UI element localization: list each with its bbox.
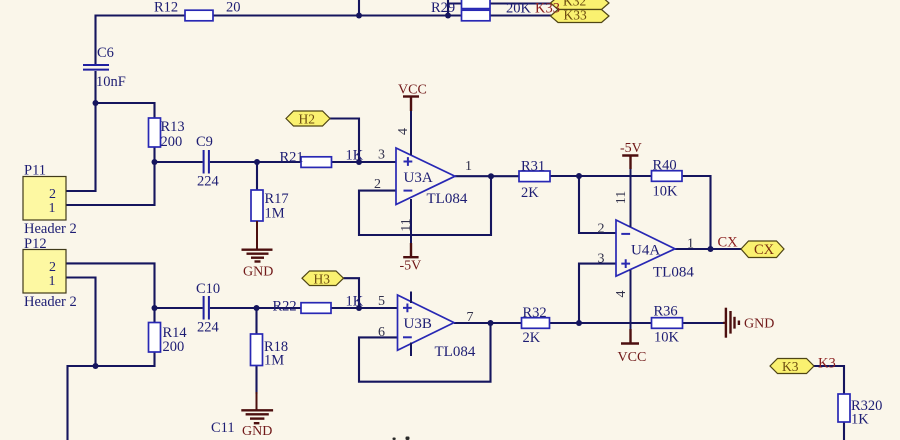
wire top-left L from R12 to C6: [96, 16, 186, 65]
port H3: [302, 271, 344, 286]
svg-text:R40: R40: [653, 158, 677, 174]
wire R13 bottom to C9 and down to P11 pin1: [66, 147, 203, 205]
header P11: [23, 177, 66, 221]
wire R21 right to U3A pin3: [332, 161, 397, 163]
svg-text:10K: 10K: [653, 184, 679, 200]
svg-text:TL084: TL084: [427, 191, 468, 207]
svg-text:GND: GND: [744, 317, 774, 332]
wire R31 right to R40 left: [550, 175, 652, 177]
capacitor C6: [83, 65, 109, 70]
svg-text:P11: P11: [24, 163, 46, 179]
svg-text:1: 1: [49, 274, 56, 289]
wire vertical up at x448 with branch to R30: [448, 0, 462, 16]
svg-text:U3A: U3A: [404, 170, 433, 186]
wire R29 lower to port K33: [490, 14, 551, 16]
wire U3B pin6 feedback loop: [359, 323, 491, 382]
svg-text:U4A: U4A: [631, 243, 660, 259]
junction C6/R13: [93, 100, 99, 106]
wire R40 right corner down to output: [682, 176, 711, 249]
svg-text:2: 2: [49, 260, 56, 275]
svg-text:4: 4: [396, 128, 411, 135]
svg-text:200: 200: [163, 339, 185, 355]
wire R32 to R36 row: [550, 322, 652, 324]
power -5V above U4A: [622, 156, 638, 170]
svg-text:2: 2: [598, 222, 605, 237]
svg-text:C9: C9: [196, 134, 213, 150]
power -5V below U3A: [403, 243, 418, 257]
junction R13/C9/P11: [152, 159, 158, 165]
wire C9 right to R21: [210, 161, 301, 163]
ground GND below R17: [242, 221, 273, 262]
svg-text:R29: R29: [431, 0, 455, 16]
svg-text:Header 2: Header 2: [24, 294, 77, 310]
wire U4A pin3 from junction below: [579, 264, 616, 323]
svg-text:CX: CX: [754, 242, 775, 258]
wire C10 right to R22: [210, 307, 301, 309]
wire H3 right and down to pin5 net: [344, 278, 360, 308]
junction H2: [356, 159, 362, 165]
junction bottom-left: [93, 363, 99, 369]
resistor R12: [185, 10, 213, 21]
svg-text:H2: H2: [299, 112, 316, 127]
resistor R17: [251, 190, 263, 221]
wire R14 through junction: [68, 308, 155, 440]
capacitor C9: [204, 150, 209, 174]
port K3: [770, 359, 814, 374]
resistor R30 (partial, top edge): [462, 0, 491, 9]
wire R320 bottom to edge: [843, 422, 845, 440]
svg-text:1K: 1K: [346, 294, 364, 310]
svg-text:224: 224: [197, 320, 220, 336]
svg-text:10nF: 10nF: [96, 74, 126, 90]
port H2: [286, 111, 330, 126]
wire K3 port to R320: [814, 366, 844, 394]
svg-text:R13: R13: [161, 119, 185, 135]
junction top x448: [445, 13, 451, 19]
svg-text:R21: R21: [280, 150, 304, 166]
svg-text:1M: 1M: [265, 206, 285, 222]
junction U3A output: [488, 173, 494, 179]
wire R17 branch down: [256, 162, 258, 190]
junction R18: [254, 305, 260, 311]
junction R31/R40/pin2: [576, 173, 582, 179]
svg-text:2: 2: [374, 177, 381, 192]
resistor R40: [652, 171, 683, 182]
svg-text:U3B: U3B: [404, 316, 432, 332]
junction R40/CX output: [708, 246, 714, 252]
svg-text:1K: 1K: [851, 412, 869, 428]
op-amp U4A: [616, 168, 675, 330]
svg-text:7: 7: [467, 310, 474, 325]
svg-text:C11: C11: [211, 420, 235, 436]
svg-text:11: 11: [399, 218, 414, 231]
svg-text:11: 11: [614, 191, 629, 204]
svg-text:C10: C10: [196, 281, 220, 297]
wire junction to R13 top: [96, 103, 155, 118]
resistor R32: [522, 318, 550, 329]
wire junction down to U4A pin2: [579, 176, 616, 233]
ground GND below R18: [241, 392, 273, 423]
svg-text:1K: 1K: [346, 148, 364, 164]
wire vertical up at x359: [358, 0, 360, 16]
wire U3B out to R32: [454, 322, 522, 324]
svg-text:20K: 20K: [506, 1, 532, 17]
svg-text:K3: K3: [782, 359, 799, 374]
svg-text:1: 1: [687, 237, 694, 252]
svg-text:GND: GND: [242, 424, 272, 439]
wire C6 bottom to junction to P11 pin2: [66, 71, 96, 191]
wire R30 upper to port K32: [490, 2, 551, 4]
svg-text:5: 5: [378, 294, 385, 309]
power VCC below U4A: [621, 329, 639, 344]
wire R22 right to U3B pin5: [331, 307, 398, 309]
resistor R36: [652, 318, 683, 329]
wire U4A output to CX port: [675, 248, 741, 250]
svg-text:Header 2: Header 2: [24, 221, 77, 237]
svg-text:2K: 2K: [523, 330, 541, 346]
svg-text:6: 6: [378, 325, 385, 340]
wire P12 pin2 to C10 left: [66, 263, 203, 308]
resistor R29: [462, 10, 491, 21]
junction top x359: [356, 13, 362, 19]
junction R17: [254, 159, 260, 165]
header P12: [23, 250, 66, 294]
svg-text:R31: R31: [521, 159, 545, 175]
op-amp U3B: [398, 292, 455, 357]
wire P12 pin1 down to bottom junction: [66, 278, 96, 367]
svg-text:K3: K3: [818, 356, 836, 372]
power VCC above U3A: [403, 97, 419, 112]
wire R18 branch down: [255, 308, 257, 394]
junction R32/R36/pin3: [576, 320, 582, 326]
svg-text:2: 2: [49, 187, 56, 202]
svg-text:R32: R32: [523, 305, 547, 321]
svg-text:R36: R36: [654, 304, 678, 320]
svg-text:H3: H3: [314, 272, 331, 287]
svg-text:VCC: VCC: [618, 350, 647, 365]
port K33: [551, 10, 610, 23]
wire R12 right to R29 area: [213, 14, 462, 16]
resistor R31: [519, 171, 550, 182]
svg-text:R12: R12: [154, 0, 178, 16]
svg-text:TL084: TL084: [435, 344, 476, 360]
junction P12/C10/R14: [152, 305, 158, 311]
svg-text:20: 20: [226, 0, 241, 16]
junction H3: [356, 305, 362, 311]
resistor R14: [149, 323, 161, 353]
svg-text:VCC: VCC: [398, 83, 427, 98]
svg-text:K33: K33: [564, 8, 587, 23]
port CX: [741, 241, 784, 258]
svg-text:200: 200: [161, 134, 183, 150]
svg-text:1: 1: [465, 159, 472, 174]
wire H2 right and down to pin3 net: [330, 119, 359, 163]
caption fragment (a) top of glyphs at bottom edge: [393, 437, 410, 440]
svg-text:GND: GND: [243, 264, 273, 279]
junction U3B output: [488, 320, 494, 326]
svg-text:3: 3: [598, 252, 605, 267]
svg-text:1M: 1M: [264, 353, 284, 369]
resistor R18: [251, 334, 263, 366]
wire R36 right to GND: [683, 322, 725, 324]
ground GND right of R36: [723, 308, 739, 338]
svg-text:2K: 2K: [521, 185, 539, 201]
svg-text:TL084: TL084: [653, 265, 694, 281]
wire U3A output to R31: [455, 175, 519, 177]
svg-text:K33: K33: [535, 1, 560, 17]
svg-text:CX: CX: [718, 235, 739, 251]
svg-text:1: 1: [49, 201, 56, 216]
resistor R22: [301, 303, 331, 314]
resistor R13: [149, 118, 161, 147]
port K32 (partial): [551, 0, 610, 10]
resistor R21: [301, 157, 332, 168]
svg-text:-5V: -5V: [620, 141, 642, 156]
svg-text:C6: C6: [97, 45, 114, 61]
svg-text:P12: P12: [24, 236, 47, 252]
svg-text:4: 4: [614, 291, 629, 298]
svg-text:-5V: -5V: [400, 259, 422, 274]
svg-text:R22: R22: [273, 299, 297, 315]
svg-text:10K: 10K: [654, 330, 680, 346]
svg-text:224: 224: [197, 174, 220, 190]
capacitor C10: [204, 296, 209, 320]
resistor R320: [838, 394, 850, 422]
wire U3A pin2 feedback loop: [359, 176, 491, 235]
op-amp U3A: [396, 97, 455, 257]
svg-text:3: 3: [378, 148, 385, 163]
